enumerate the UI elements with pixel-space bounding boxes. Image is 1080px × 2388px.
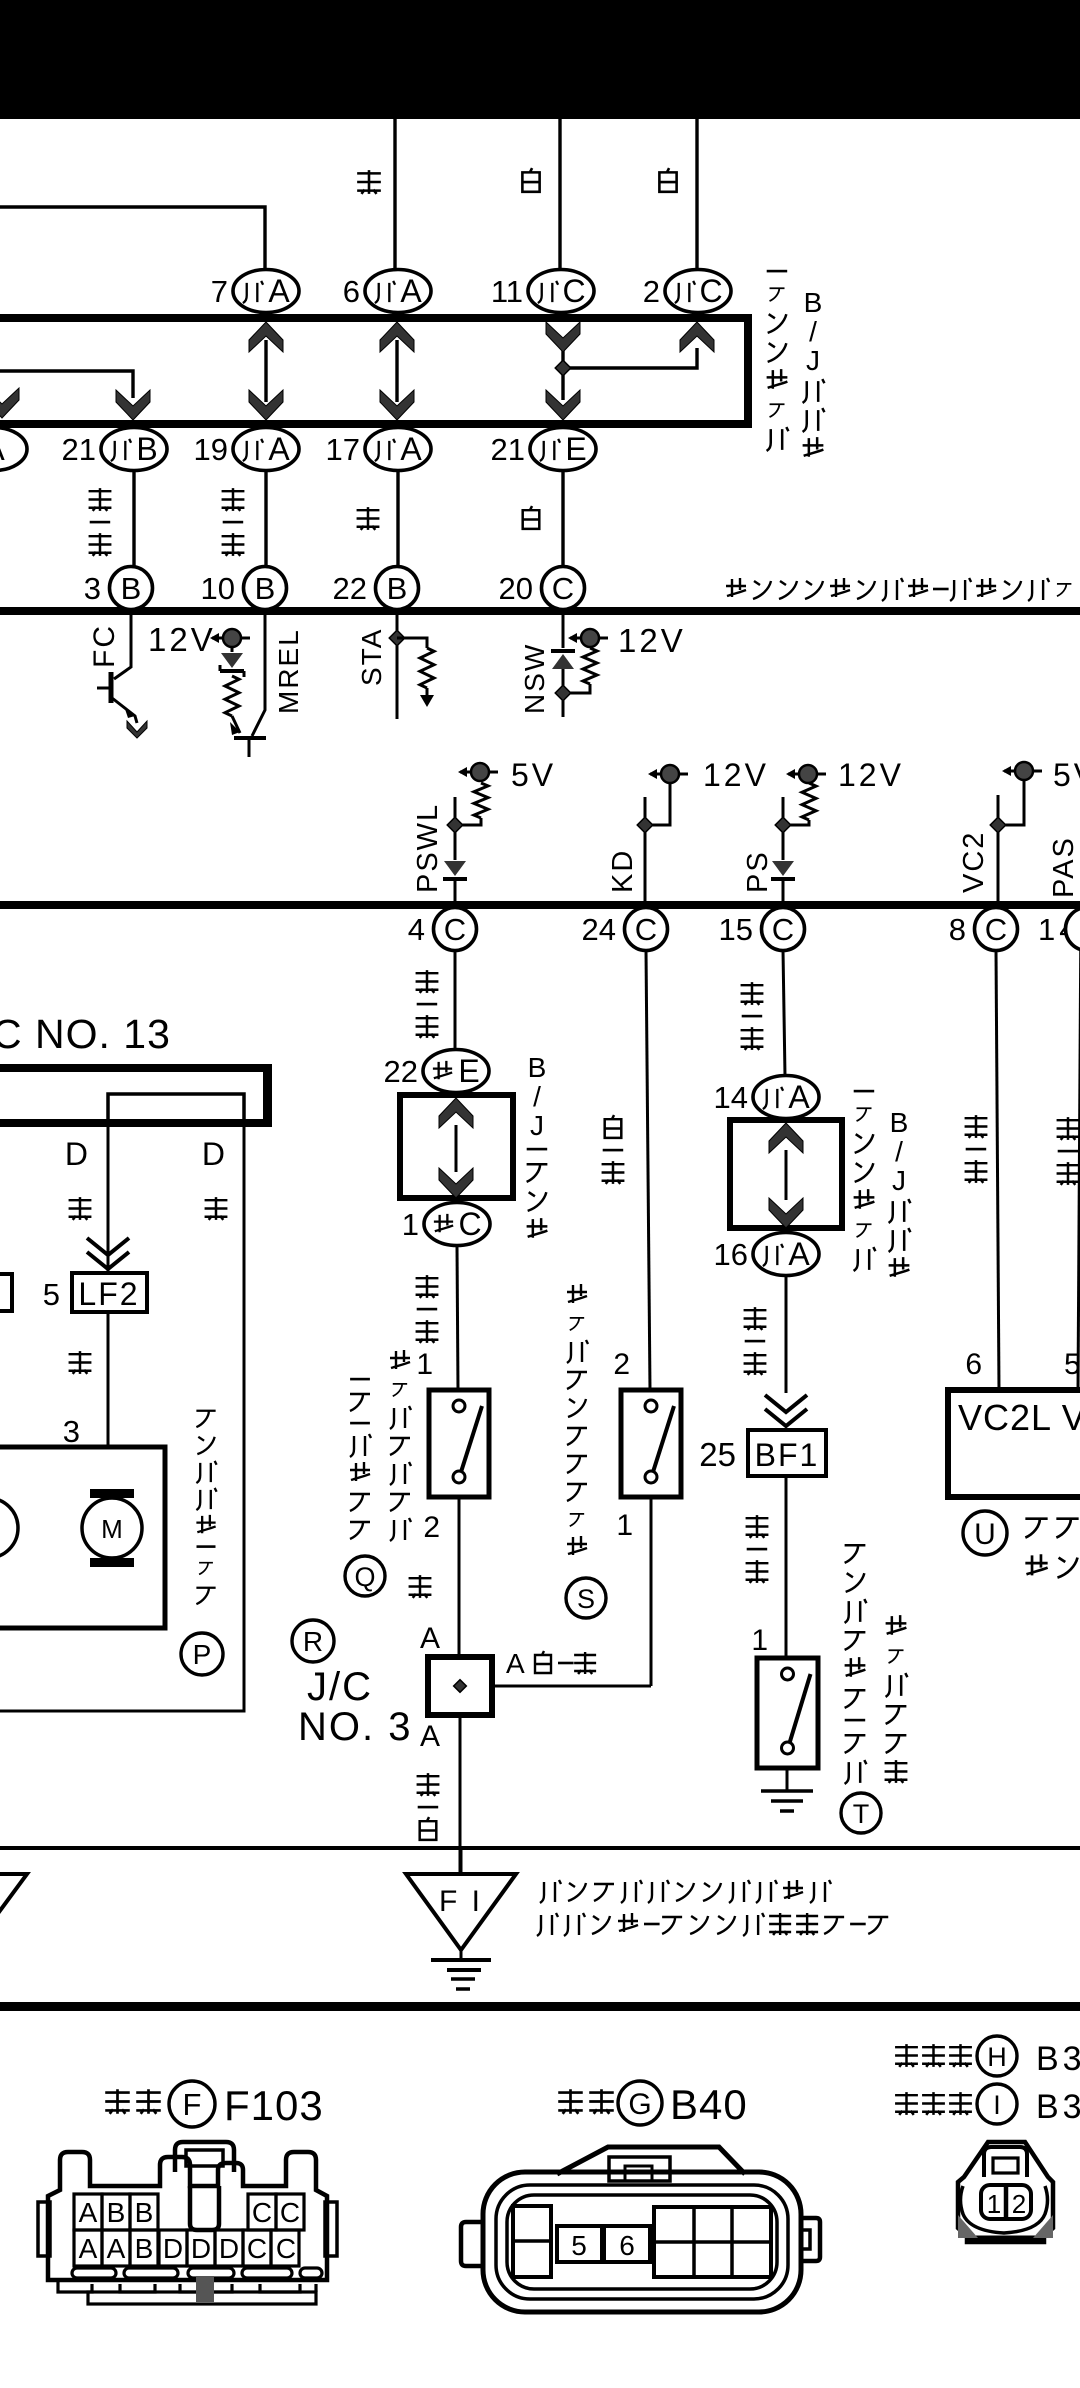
svg-text:A: A bbox=[420, 1720, 440, 1753]
svg-text:C: C bbox=[280, 2197, 300, 2228]
ECU pin 3 B bbox=[110, 567, 153, 610]
svg-text:/: / bbox=[895, 1136, 903, 1167]
svg-text:B: B bbox=[107, 2197, 126, 2228]
svg-text:S: S bbox=[577, 1584, 595, 1614]
ECU title (engine control computer) bbox=[726, 578, 1071, 601]
svg-text:B: B bbox=[528, 1052, 547, 1083]
svg-text:Q: Q bbox=[354, 1562, 375, 1592]
ECU pin 10 B bbox=[244, 567, 287, 610]
svg-text:24: 24 bbox=[582, 912, 616, 947]
svg-text:12V: 12V bbox=[618, 622, 686, 659]
svg-text:C: C bbox=[252, 2197, 272, 2228]
svg-text:D: D bbox=[65, 1136, 88, 1172]
svg-text:A: A bbox=[107, 2233, 126, 2264]
svg-text:MREL: MREL bbox=[273, 628, 304, 714]
wire pin14 at right edge bbox=[1078, 905, 1080, 1390]
svg-text:I: I bbox=[993, 2090, 1001, 2120]
svg-text:C: C bbox=[247, 2233, 267, 2264]
svg-text:8: 8 bbox=[949, 912, 966, 947]
svg-text:J: J bbox=[892, 1165, 906, 1196]
FI ground triangle bbox=[460, 1850, 463, 1876]
24(C) kickdown chain bbox=[646, 950, 650, 1390]
svg-text:5: 5 bbox=[571, 2230, 587, 2261]
thick separator line bbox=[0, 2002, 1080, 2011]
ECU bottom bus line bbox=[0, 901, 1080, 909]
svg-text:J/C: J/C bbox=[307, 1665, 373, 1709]
svg-text:1: 1 bbox=[416, 1348, 433, 1381]
svg-text:17: 17 bbox=[326, 432, 360, 467]
wire color labels bbox=[89, 488, 112, 556]
connector 5 LF2 bbox=[72, 1273, 147, 1312]
connector pin 6 paA bbox=[365, 270, 431, 313]
brown wire to J/C no.3 bbox=[458, 1497, 461, 1657]
svg-text:VC2L V: VC2L V bbox=[958, 1397, 1080, 1438]
svg-text:U: U bbox=[974, 1518, 996, 1551]
power steering pressure switch bbox=[757, 1658, 818, 1768]
svg-text:E: E bbox=[458, 1053, 479, 1089]
wire: feed to pin 7 from left bbox=[0, 207, 265, 270]
wire D1 x=108 bbox=[107, 1127, 110, 1273]
svg-text:A: A bbox=[400, 431, 422, 467]
ECU pin 22 B bbox=[376, 567, 419, 610]
svg-text:LF2: LF2 bbox=[78, 1276, 139, 1312]
wire sC to accel switch bbox=[457, 1246, 458, 1390]
PSWL circuit bbox=[460, 771, 498, 774]
BF1 connector bbox=[748, 1430, 826, 1476]
svg-text:20: 20 bbox=[499, 571, 533, 606]
connector pin A partial at left edge bbox=[0, 428, 27, 471]
svg-text:J: J bbox=[806, 345, 820, 376]
svg-text:2: 2 bbox=[613, 1348, 630, 1381]
svg-text:21: 21 bbox=[62, 432, 96, 467]
label gray G B40 bbox=[558, 2089, 614, 2114]
svg-text:/: / bbox=[809, 316, 817, 347]
pin14 wire label yellow-black bbox=[1057, 1117, 1080, 1185]
passenger side J/B box bbox=[0, 318, 748, 424]
connector pin 17 paA bbox=[365, 428, 431, 471]
svg-text:A: A bbox=[268, 273, 290, 309]
svg-text:A: A bbox=[79, 2197, 98, 2228]
svg-text:D: D bbox=[219, 2233, 239, 2264]
svg-text:E: E bbox=[565, 431, 586, 467]
svg-text:B: B bbox=[255, 571, 276, 606]
svg-text:5: 5 bbox=[43, 1277, 60, 1312]
svg-text:VC2: VC2 bbox=[958, 831, 990, 893]
label blue F F103 bbox=[105, 2089, 161, 2114]
PS circuit bbox=[788, 773, 826, 776]
svg-text:B: B bbox=[136, 431, 157, 467]
svg-text:A: A bbox=[268, 431, 290, 467]
svg-text:B: B bbox=[135, 2197, 154, 2228]
svg-text:12V: 12V bbox=[703, 757, 769, 793]
svg-text:19: 19 bbox=[194, 432, 228, 467]
svg-text:2: 2 bbox=[643, 274, 660, 309]
svg-text:B3: B3 bbox=[1036, 2088, 1080, 2126]
wire J/C3 to kickdown sw, label A white-black bbox=[492, 1685, 651, 1688]
connector pin 19 paA bbox=[233, 428, 299, 471]
svg-text:B3: B3 bbox=[1036, 2040, 1080, 2078]
wire to 6(paA) with label black bbox=[393, 119, 396, 269]
svg-text:12V: 12V bbox=[838, 757, 904, 793]
svg-text:A: A bbox=[400, 273, 422, 309]
connector pin 11 paC bbox=[528, 270, 594, 313]
pump motor bbox=[82, 1498, 142, 1558]
svg-text:1: 1 bbox=[616, 1509, 633, 1542]
svg-text:1: 1 bbox=[987, 2189, 1001, 2219]
svg-text:21: 21 bbox=[491, 432, 525, 467]
connector pin 21 paE bbox=[530, 428, 596, 471]
svg-text:R: R bbox=[303, 1626, 323, 1657]
ECU pin 20 C bbox=[542, 567, 585, 610]
svg-text:1: 1 bbox=[751, 1624, 768, 1657]
accelerator pedal switch bbox=[429, 1390, 489, 1497]
svg-text:A: A bbox=[788, 1236, 810, 1272]
svg-text:A: A bbox=[79, 2233, 98, 2264]
ground below PS switch bbox=[786, 1768, 789, 1790]
svg-text:6: 6 bbox=[619, 2230, 635, 2261]
svg-text:25: 25 bbox=[699, 1436, 736, 1473]
wire D2 x=244 down and left bbox=[0, 1127, 244, 1711]
svg-text:22: 22 bbox=[384, 1054, 418, 1089]
wire from left edge into J/B bottom at x=133 bbox=[0, 371, 133, 398]
svg-text:D: D bbox=[202, 1136, 225, 1172]
svg-text:5: 5 bbox=[1064, 1348, 1080, 1381]
svg-text:J: J bbox=[530, 1110, 544, 1141]
wire LF2 to pump bbox=[107, 1312, 110, 1492]
VC2 circuit bbox=[1004, 770, 1042, 773]
svg-text:BF1: BF1 bbox=[755, 1437, 820, 1473]
label passenger side J/B bbox=[767, 270, 789, 451]
svg-text:B: B bbox=[121, 571, 142, 606]
svg-text:KD: KD bbox=[607, 849, 639, 893]
svg-text:2: 2 bbox=[1012, 2189, 1026, 2219]
svg-text:A: A bbox=[506, 1648, 525, 1679]
KD circuit bbox=[650, 773, 688, 776]
J/C NO.3 bbox=[292, 1620, 334, 1662]
svg-text:5V: 5V bbox=[1053, 757, 1080, 793]
J/C NO.13 connector bars bbox=[0, 1064, 272, 1072]
wire to 11(paC) label white bbox=[558, 119, 561, 269]
svg-text:C: C bbox=[562, 273, 585, 309]
svg-text:C: C bbox=[276, 2233, 296, 2264]
VC2L sensor box bbox=[948, 1390, 1080, 1497]
svg-text:C: C bbox=[552, 571, 574, 606]
fuel pump box bbox=[0, 1447, 165, 1628]
ground description text bbox=[540, 1880, 831, 1903]
svg-text:1: 1 bbox=[402, 1207, 419, 1242]
svg-text:B: B bbox=[135, 2233, 154, 2264]
svg-text:NO. 3: NO. 3 bbox=[298, 1705, 412, 1749]
svg-text:D: D bbox=[163, 2233, 183, 2264]
svg-text:6: 6 bbox=[343, 274, 360, 309]
svg-text:NSW: NSW bbox=[519, 643, 550, 714]
svg-text:A: A bbox=[0, 431, 5, 467]
ECU top bus line bbox=[0, 607, 1080, 615]
svg-text:B40: B40 bbox=[670, 2081, 748, 2128]
svg-text:2: 2 bbox=[423, 1511, 440, 1544]
8(C) VC2 chain bbox=[996, 950, 999, 1390]
wire below J/C3 bbox=[459, 1715, 462, 1876]
top black header bar bbox=[0, 0, 1080, 119]
svg-text:C: C bbox=[699, 273, 722, 309]
thin frame line bbox=[0, 1846, 1080, 1850]
J/B internal arrow x=266 bbox=[264, 340, 267, 402]
svg-text:5V: 5V bbox=[511, 757, 556, 793]
svg-text:A: A bbox=[420, 1622, 440, 1655]
svg-text:3: 3 bbox=[63, 1414, 80, 1449]
svg-text:16: 16 bbox=[714, 1237, 748, 1272]
svg-text:B: B bbox=[387, 571, 408, 606]
svg-text:C: C bbox=[985, 912, 1007, 947]
svg-text:T: T bbox=[853, 1799, 870, 1829]
svg-text:C: C bbox=[772, 912, 794, 947]
ECU pin 15 C bbox=[762, 908, 805, 951]
svg-text:FC: FC bbox=[88, 624, 121, 668]
15(C) PS chain bbox=[783, 950, 785, 1076]
svg-text:A: A bbox=[788, 1079, 810, 1115]
svg-text:STA: STA bbox=[356, 628, 387, 686]
svg-text:15: 15 bbox=[719, 912, 753, 947]
svg-text:10: 10 bbox=[201, 571, 235, 606]
svg-text:4: 4 bbox=[408, 912, 425, 947]
svg-text:G: G bbox=[628, 2088, 651, 2121]
wire to 2(paC) label white bbox=[695, 119, 698, 269]
partial chevron at left edge bbox=[0, 388, 19, 418]
svg-text:6: 6 bbox=[965, 1348, 982, 1381]
MREL circuit: power, zener, resistor, transistor bbox=[212, 637, 250, 640]
connector B40 bbox=[461, 2147, 820, 2312]
svg-text:PS: PS bbox=[742, 850, 774, 893]
partial motor at left edge bbox=[0, 1498, 18, 1558]
svg-text:PSWL: PSWL bbox=[412, 803, 444, 893]
connector F103 bbox=[38, 2142, 337, 2280]
svg-text:F I: F I bbox=[439, 1885, 483, 1918]
ECU pin 8 C bbox=[975, 908, 1018, 951]
svg-text:F: F bbox=[183, 2087, 202, 2122]
svg-text:11: 11 bbox=[491, 274, 523, 309]
svg-text:C: C bbox=[635, 912, 657, 947]
svg-text:F103: F103 bbox=[224, 2082, 324, 2129]
svg-text:D: D bbox=[191, 2233, 211, 2264]
4(C) chain: sE/sC center J/B bbox=[454, 950, 457, 1050]
partial ground triangle at left edge bbox=[0, 1874, 27, 1950]
svg-text:H: H bbox=[987, 2042, 1007, 2072]
svg-text:C: C bbox=[458, 1206, 481, 1242]
connector H/I two-pin bbox=[958, 2142, 1053, 2242]
connector pin 7 paA bbox=[233, 270, 299, 313]
fuel pump label bbox=[196, 1411, 216, 1604]
svg-text:12V: 12V bbox=[148, 621, 216, 658]
svg-text:22: 22 bbox=[333, 571, 367, 606]
svg-text:PAS: PAS bbox=[1048, 836, 1080, 898]
svg-text:B: B bbox=[890, 1107, 909, 1138]
svg-text:14: 14 bbox=[714, 1080, 748, 1115]
labels dark gray H/I bbox=[895, 2044, 972, 2067]
ECU pin 4 C bbox=[434, 908, 477, 951]
svg-text:C: C bbox=[444, 912, 466, 947]
svg-text:/: / bbox=[533, 1081, 541, 1112]
svg-text:M: M bbox=[101, 1514, 123, 1544]
J/B internal arrow x=397 bbox=[395, 340, 398, 402]
connector pin 2 paC bbox=[665, 270, 731, 313]
svg-text:B: B bbox=[804, 287, 823, 318]
svg-text:7: 7 bbox=[211, 274, 228, 309]
J/B internal arrow x=563 with branch to pin 2 bbox=[561, 345, 564, 400]
svg-text:P: P bbox=[193, 1639, 212, 1670]
svg-text:C NO. 13: C NO. 13 bbox=[0, 1011, 171, 1057]
connector pin 21 paB bbox=[101, 428, 167, 471]
wires J/B to ECU bbox=[132, 471, 135, 566]
svg-text:3: 3 bbox=[84, 571, 101, 606]
ECU pin 24 C bbox=[625, 908, 668, 951]
